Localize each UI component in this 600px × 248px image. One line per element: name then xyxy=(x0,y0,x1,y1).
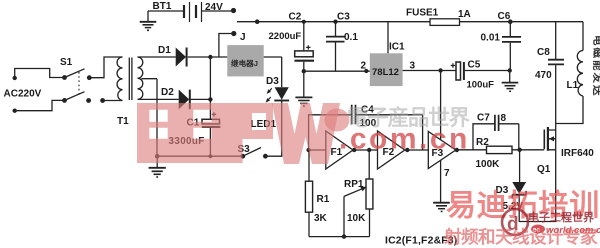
svg-text:射频和天线设计专家: 射频和天线设计专家 xyxy=(443,227,598,247)
wire secondary top lead to D1 xyxy=(138,56,176,58)
watermark .com.cn xyxy=(339,123,470,156)
node gate junction xyxy=(517,148,521,152)
capacitor C2 2200uF xyxy=(295,20,315,71)
wire S1 upper output to transformer primary top xyxy=(89,57,122,78)
watermark 电子工程世界 xyxy=(528,210,594,224)
battery BT1 xyxy=(184,2,202,22)
svg-text:電子産品世界: 電子産品世界 xyxy=(347,105,471,130)
watermark letter P xyxy=(225,103,273,163)
label relay box 继电器J xyxy=(231,58,258,68)
node RP1 tap junction xyxy=(367,148,371,152)
ground at battery xyxy=(140,22,157,31)
inductor L1 xyxy=(556,22,583,124)
node C2 bottom junction xyxy=(302,69,306,73)
node battery contact xyxy=(231,8,236,13)
wire LED cathode down to S3 xyxy=(265,101,281,156)
wire battery to relay contact xyxy=(202,10,234,12)
resistor R1 3K xyxy=(305,150,312,237)
wire C2 node to ground xyxy=(303,71,305,97)
wire main 24V rail xyxy=(237,21,583,23)
wire oscillator bottom rail xyxy=(309,234,370,238)
node C6 rail junction xyxy=(508,19,513,24)
transformer T1 core xyxy=(129,58,132,101)
watermark d logo circle xyxy=(502,209,528,235)
watermark 電子産品世界 gray xyxy=(347,105,471,130)
wire F1 output to F2 input xyxy=(352,148,378,152)
potentiometer RP1 10K xyxy=(344,150,373,237)
wire 12V line down to IC2 ground pin 7 xyxy=(440,71,442,203)
resistor R2 100K xyxy=(457,146,520,153)
switch S1 mechanical link (dashed) xyxy=(78,72,80,96)
ground right of C5 xyxy=(502,71,519,92)
capacitor C1 3300uF xyxy=(202,112,221,158)
node rail junction near relay xyxy=(255,19,260,24)
ground at pin 7 xyxy=(433,203,450,212)
ground main xyxy=(149,156,166,177)
wire secondary center tap to ground rail xyxy=(142,79,158,157)
wire D2 cathode to junction xyxy=(191,97,213,101)
node C5 output junction xyxy=(508,68,512,72)
wire F1 input node xyxy=(306,148,325,152)
LED D3 (LED1) xyxy=(266,87,290,102)
wire secondary bottom lead to D2 xyxy=(138,98,179,100)
ground below C2 xyxy=(295,97,312,106)
IC1 78L12 regulator box xyxy=(370,22,403,86)
wire 78L12 pin 3 output xyxy=(403,68,456,72)
wire relay coil to LED D3 xyxy=(264,57,282,87)
wire Q1 source down to bottom rail xyxy=(519,150,556,222)
watermark letter W xyxy=(272,103,340,164)
node J contact xyxy=(231,31,236,36)
wire primary bottom lead xyxy=(103,100,123,102)
wire J contact branch xyxy=(219,34,234,58)
zener diode D3 5.2V xyxy=(512,182,526,222)
node primary bottom terminal xyxy=(100,98,105,103)
watermark 射频和天线设计专家 xyxy=(443,227,598,247)
watermark letter E xyxy=(137,103,350,164)
capacitor C5 100uF xyxy=(451,62,510,80)
capacitor C6 0.01 xyxy=(502,22,521,71)
node rectifier output junction xyxy=(208,55,212,59)
relay coil box J xyxy=(227,45,263,76)
wire rectifier output vertical to C1 xyxy=(209,57,211,119)
node ground rail junction xyxy=(155,154,160,159)
wire ground rail to S3 xyxy=(157,155,243,157)
wire AC lower lead xyxy=(15,100,63,110)
node AC220V upper terminal xyxy=(13,76,17,80)
switch S1 lower pole xyxy=(62,92,91,103)
inverter F3 xyxy=(428,132,456,169)
wire gate node down to zener xyxy=(519,150,521,182)
diode D2 xyxy=(179,90,190,110)
transformer T1 primary winding xyxy=(117,57,122,101)
wire AC upper lead xyxy=(15,69,63,79)
watermark 易迪拓培训 xyxy=(446,189,600,223)
fuse FUSE1 1A xyxy=(430,19,460,26)
watermark letter E second xyxy=(181,103,225,163)
wire R2 node to Q1 gate xyxy=(520,149,545,151)
wire F2 output to F3 input xyxy=(405,148,429,152)
inverter F2 xyxy=(378,131,405,169)
transistor Q1 IRF640 xyxy=(544,124,555,151)
capacitor C7 feedback xyxy=(473,115,519,150)
switch S3 xyxy=(240,148,267,159)
inverter F1 xyxy=(326,131,353,169)
watermark eeworld.com.cn xyxy=(531,225,600,237)
transformer T1 secondary winding xyxy=(138,57,143,99)
wire battery negative to ground xyxy=(148,11,184,21)
capacitor C3 0.1 xyxy=(326,20,345,72)
capacitor C8 470 xyxy=(548,22,564,124)
switch S1 upper pole xyxy=(62,69,92,80)
wire D1 cathode to relay coil xyxy=(188,56,228,58)
wire F3 output xyxy=(455,148,459,152)
diode D1 xyxy=(176,48,187,67)
label 电磁能发送 (vertical, right edge) xyxy=(592,35,600,98)
svg-text:电子工程世界: 电子工程世界 xyxy=(528,210,594,224)
node AC220V lower terminal xyxy=(13,109,17,113)
capacitor C4 100 feedback xyxy=(309,105,423,150)
wire ground node to 78L12 pin 2 xyxy=(304,69,370,73)
